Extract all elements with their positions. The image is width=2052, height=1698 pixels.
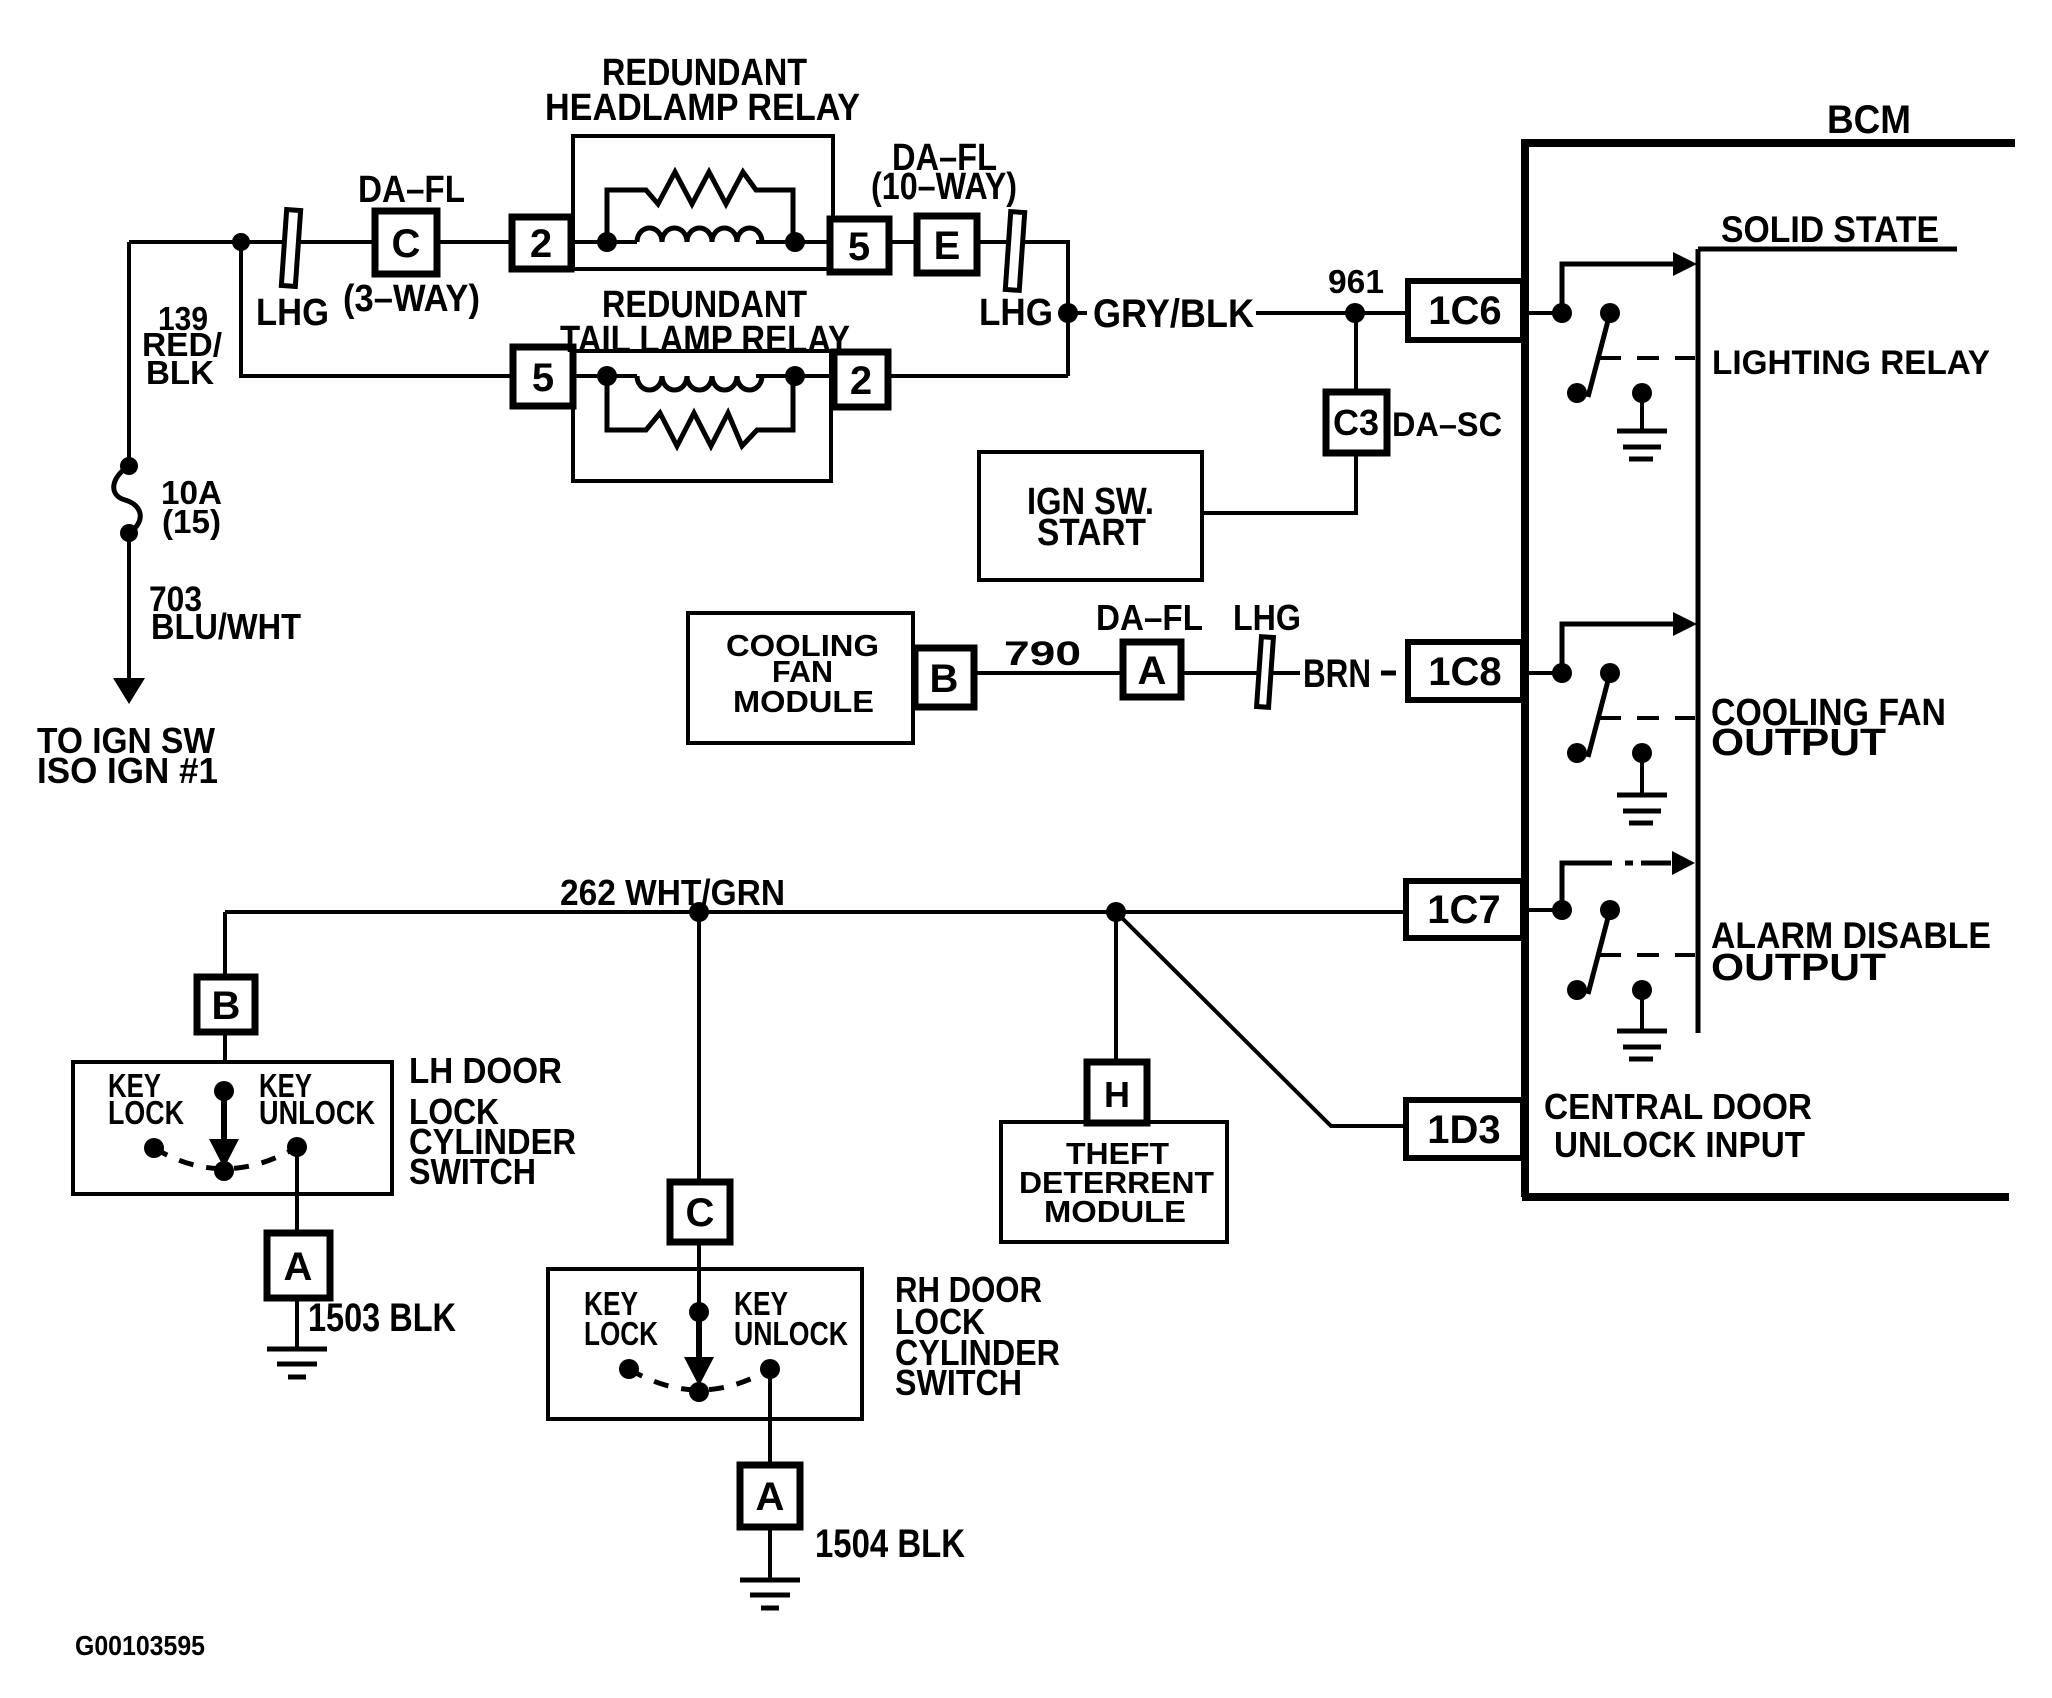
svg-text:1C7: 1C7 bbox=[1427, 888, 1500, 932]
svg-text:SOLID STATE: SOLID STATE bbox=[1721, 209, 1939, 250]
svg-text:DA–FL: DA–FL bbox=[358, 169, 465, 211]
svg-text:OUTPUT: OUTPUT bbox=[1711, 722, 1886, 764]
svg-text:A: A bbox=[756, 1475, 785, 1519]
svg-text:1D3: 1D3 bbox=[1427, 1108, 1500, 1152]
svg-text:LH DOOR: LH DOOR bbox=[409, 1050, 562, 1091]
svg-text:OUTPUT: OUTPUT bbox=[1711, 947, 1886, 989]
svg-text:DA–FL: DA–FL bbox=[1096, 597, 1203, 638]
svg-text:ISO IGN #1: ISO IGN #1 bbox=[37, 750, 218, 791]
svg-text:C: C bbox=[392, 222, 421, 266]
svg-text:TAIL LAMP RELAY: TAIL LAMP RELAY bbox=[560, 319, 850, 361]
svg-text:(3–WAY): (3–WAY) bbox=[343, 278, 480, 320]
svg-text:LHG: LHG bbox=[256, 292, 329, 334]
svg-text:GRY/BLK: GRY/BLK bbox=[1093, 292, 1254, 336]
svg-text:961: 961 bbox=[1328, 263, 1384, 300]
svg-text:5: 5 bbox=[532, 356, 554, 400]
svg-text:B: B bbox=[930, 657, 959, 701]
svg-text:MODULE: MODULE bbox=[733, 684, 874, 719]
svg-text:1C6: 1C6 bbox=[1428, 289, 1501, 333]
svg-text:G00103595: G00103595 bbox=[75, 1630, 205, 1661]
svg-text:1503 BLK: 1503 BLK bbox=[308, 1296, 456, 1340]
svg-text:LOCK: LOCK bbox=[584, 1315, 658, 1352]
svg-text:CENTRAL DOOR: CENTRAL DOOR bbox=[1544, 1086, 1812, 1127]
svg-text:UNLOCK: UNLOCK bbox=[734, 1315, 848, 1352]
svg-text:(15): (15) bbox=[162, 503, 221, 540]
svg-text:HEADLAMP RELAY: HEADLAMP RELAY bbox=[545, 87, 860, 129]
svg-text:790: 790 bbox=[1004, 635, 1081, 673]
svg-text:2: 2 bbox=[850, 359, 872, 403]
svg-text:UNLOCK INPUT: UNLOCK INPUT bbox=[1554, 1124, 1805, 1165]
svg-text:BLK: BLK bbox=[146, 354, 214, 391]
svg-text:A: A bbox=[1138, 649, 1167, 693]
svg-text:1C8: 1C8 bbox=[1428, 650, 1501, 694]
svg-text:LOCK: LOCK bbox=[108, 1094, 184, 1131]
svg-text:LHG: LHG bbox=[979, 292, 1053, 334]
svg-text:(10–WAY): (10–WAY) bbox=[871, 166, 1017, 208]
svg-text:SWITCH: SWITCH bbox=[895, 1362, 1022, 1403]
svg-text:LHG: LHG bbox=[1233, 597, 1301, 638]
svg-text:UNLOCK: UNLOCK bbox=[259, 1094, 375, 1131]
svg-text:262 WHT/GRN: 262 WHT/GRN bbox=[560, 872, 785, 913]
svg-text:B: B bbox=[212, 984, 241, 1028]
svg-text:A: A bbox=[284, 1245, 313, 1289]
svg-text:START: START bbox=[1037, 512, 1146, 554]
svg-text:BCM: BCM bbox=[1827, 98, 1911, 142]
svg-text:BRN: BRN bbox=[1303, 652, 1371, 696]
svg-text:MODULE: MODULE bbox=[1044, 1194, 1186, 1229]
svg-text:SWITCH: SWITCH bbox=[409, 1151, 536, 1192]
svg-text:C3: C3 bbox=[1333, 402, 1379, 443]
svg-text:1504 BLK: 1504 BLK bbox=[815, 1522, 965, 1566]
svg-text:E: E bbox=[934, 224, 961, 268]
svg-text:DA–SC: DA–SC bbox=[1392, 406, 1502, 444]
svg-text:2: 2 bbox=[530, 222, 552, 266]
svg-text:C: C bbox=[686, 1191, 715, 1235]
svg-text:H: H bbox=[1104, 1074, 1130, 1115]
svg-text:BLU/WHT: BLU/WHT bbox=[151, 606, 301, 647]
svg-text:LIGHTING RELAY: LIGHTING RELAY bbox=[1712, 344, 1990, 382]
svg-text:5: 5 bbox=[848, 225, 870, 269]
